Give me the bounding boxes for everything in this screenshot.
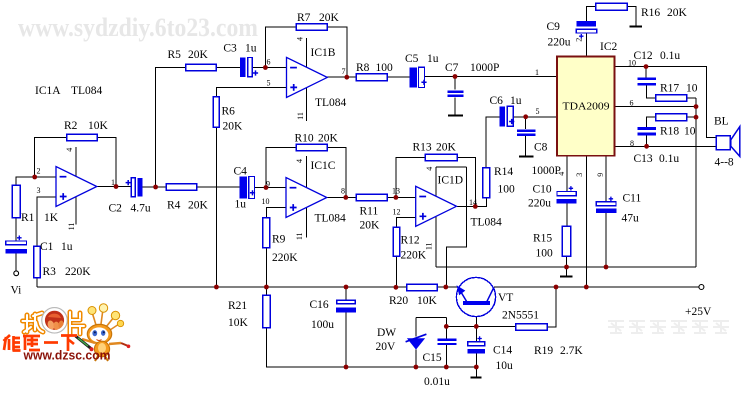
svg-text:C11: C11 (623, 193, 642, 205)
svg-text:20K: 20K (223, 121, 244, 133)
svg-text:100u: 100u (311, 319, 334, 331)
svg-text:1u: 1u (427, 53, 439, 65)
svg-text:C12: C12 (634, 50, 653, 62)
svg-text:2N5551: 2N5551 (502, 310, 539, 322)
svg-text:VT: VT (498, 292, 513, 304)
svg-text:C4: C4 (234, 166, 248, 178)
svg-text:47u: 47u (622, 213, 640, 225)
svg-text:R1: R1 (21, 212, 35, 224)
svg-text:DW: DW (377, 327, 396, 339)
svg-text:14: 14 (469, 198, 477, 207)
svg-text:20K: 20K (319, 12, 340, 24)
svg-text:4: 4 (295, 159, 304, 163)
svg-text:2: 2 (574, 38, 583, 42)
svg-text:C5: C5 (405, 53, 419, 65)
svg-text:100: 100 (498, 184, 516, 196)
svg-text:1u: 1u (235, 199, 247, 211)
svg-text:10K: 10K (88, 120, 109, 132)
svg-text:IC2: IC2 (600, 41, 618, 53)
svg-text:R11: R11 (360, 206, 379, 218)
svg-text:R18: R18 (660, 126, 679, 138)
svg-text:C16: C16 (310, 299, 329, 311)
svg-text:C15: C15 (423, 352, 442, 364)
svg-text:4: 4 (65, 148, 74, 152)
svg-text:220K: 220K (401, 250, 427, 262)
svg-text:4: 4 (557, 172, 566, 176)
svg-text:13: 13 (392, 187, 400, 196)
svg-text:10: 10 (628, 59, 636, 68)
svg-text:C8: C8 (534, 142, 548, 154)
svg-text:1u: 1u (61, 241, 73, 253)
svg-text:R17: R17 (660, 83, 679, 95)
svg-text:10: 10 (686, 83, 698, 95)
svg-text:5: 5 (536, 107, 540, 116)
svg-text:9: 9 (596, 173, 605, 177)
svg-text:C6: C6 (490, 95, 504, 107)
svg-text:www.dzsc.com: www.dzsc.com (23, 349, 111, 363)
svg-text:20K: 20K (436, 142, 457, 154)
svg-text:20K: 20K (667, 7, 688, 19)
svg-text:6: 6 (630, 99, 634, 108)
svg-text:BL: BL (714, 116, 729, 128)
svg-text:4--8: 4--8 (715, 157, 734, 169)
svg-text:2.7K: 2.7K (560, 345, 583, 357)
svg-text:IC1A: IC1A (35, 85, 61, 97)
svg-text:0.01u: 0.01u (424, 376, 450, 388)
svg-text:R2: R2 (64, 120, 78, 132)
svg-text:12: 12 (393, 208, 401, 217)
svg-text:11: 11 (296, 112, 305, 120)
svg-text:TL084: TL084 (471, 217, 503, 229)
svg-text:R4: R4 (167, 200, 181, 212)
svg-text:100: 100 (536, 248, 554, 260)
svg-text:8: 8 (341, 187, 345, 196)
svg-text:7: 7 (342, 67, 346, 76)
svg-text:C14: C14 (493, 345, 512, 357)
svg-text:1000P: 1000P (470, 62, 499, 74)
svg-text:10: 10 (684, 126, 696, 138)
svg-text:R12: R12 (401, 235, 420, 247)
svg-text:TL084: TL084 (315, 97, 347, 109)
svg-text:20V: 20V (376, 341, 397, 353)
svg-text:9: 9 (266, 180, 270, 189)
svg-text:220K: 220K (272, 252, 298, 264)
svg-text:Vi: Vi (11, 285, 22, 297)
svg-text:5: 5 (267, 79, 271, 88)
svg-text:R7: R7 (297, 12, 311, 24)
svg-text:R16: R16 (641, 7, 660, 19)
svg-text:+25V: +25V (685, 306, 712, 318)
svg-text:11: 11 (425, 242, 434, 250)
svg-text:20K: 20K (318, 133, 339, 145)
svg-text:1u: 1u (510, 95, 522, 107)
svg-text:4: 4 (425, 167, 434, 171)
svg-text:IC1B: IC1B (311, 47, 336, 59)
svg-text:20K: 20K (360, 220, 381, 232)
svg-text:220u: 220u (548, 37, 571, 49)
svg-text:20K: 20K (188, 200, 209, 212)
svg-text:220u: 220u (528, 198, 551, 210)
svg-text:R19: R19 (534, 345, 553, 357)
svg-text:1u: 1u (245, 43, 257, 55)
svg-text:2: 2 (37, 167, 41, 176)
svg-text:3: 3 (37, 186, 41, 195)
svg-text:4: 4 (295, 37, 304, 41)
svg-text:R3: R3 (43, 266, 57, 278)
svg-text:0.1u: 0.1u (660, 50, 680, 62)
svg-text:1K: 1K (44, 212, 59, 224)
svg-text:TL084: TL084 (71, 85, 103, 97)
svg-text:R20: R20 (389, 295, 408, 307)
svg-text:20K: 20K (188, 49, 209, 61)
svg-text:R6: R6 (222, 106, 236, 118)
svg-text:C13: C13 (634, 153, 653, 165)
svg-text:R14: R14 (494, 166, 513, 178)
svg-text:C3: C3 (223, 43, 237, 55)
svg-text:R13: R13 (413, 142, 432, 154)
svg-text:C10: C10 (533, 184, 552, 196)
svg-text:11: 11 (67, 223, 76, 231)
svg-text:0.1u: 0.1u (659, 153, 679, 165)
svg-text:3: 3 (575, 173, 584, 177)
svg-text:R15: R15 (533, 233, 552, 245)
svg-text:10: 10 (262, 197, 270, 206)
svg-text:R5: R5 (168, 49, 182, 61)
svg-text:C2: C2 (109, 203, 123, 215)
svg-text:1: 1 (111, 178, 115, 187)
svg-text:C9: C9 (547, 21, 561, 33)
svg-text:100: 100 (376, 62, 394, 74)
svg-text:1: 1 (535, 68, 539, 77)
svg-text:10K: 10K (228, 317, 249, 329)
svg-text:11: 11 (295, 232, 304, 240)
svg-text:www.sydzdiy.6to23.com: www.sydzdiy.6to23.com (18, 13, 258, 42)
svg-text:IC1D: IC1D (438, 175, 464, 187)
svg-text:R10: R10 (295, 133, 314, 145)
svg-text:TL084: TL084 (315, 213, 347, 225)
svg-text:IC1C: IC1C (311, 160, 336, 172)
svg-text:6: 6 (267, 58, 271, 67)
svg-text:R21: R21 (228, 300, 247, 312)
svg-text:C7: C7 (445, 62, 459, 74)
svg-text:4.7u: 4.7u (131, 203, 151, 215)
svg-text:R9: R9 (272, 234, 286, 246)
svg-text:10K: 10K (417, 295, 438, 307)
svg-text:8: 8 (630, 139, 634, 148)
svg-text:R8: R8 (356, 62, 370, 74)
svg-text:220K: 220K (65, 266, 91, 278)
svg-text:10u: 10u (496, 360, 514, 372)
svg-text:C1: C1 (40, 241, 54, 253)
svg-text:TDA2009: TDA2009 (563, 102, 610, 113)
